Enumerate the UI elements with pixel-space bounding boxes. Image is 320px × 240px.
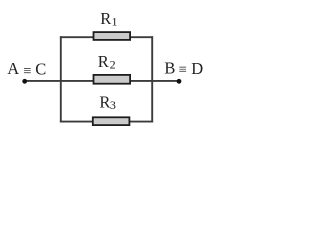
svg-text:3: 3 xyxy=(110,98,116,112)
svg-text:B: B xyxy=(164,58,175,77)
svg-text:R: R xyxy=(99,93,110,112)
svg-text:A: A xyxy=(7,59,19,78)
svg-text:2: 2 xyxy=(110,57,116,71)
svg-text:R: R xyxy=(98,52,109,71)
svg-text:1: 1 xyxy=(112,15,118,29)
svg-text:≡: ≡ xyxy=(23,64,31,80)
svg-text:≡: ≡ xyxy=(179,62,187,78)
svg-text:R: R xyxy=(100,9,111,28)
svg-text:D: D xyxy=(191,59,203,78)
svg-text:C: C xyxy=(35,59,46,78)
